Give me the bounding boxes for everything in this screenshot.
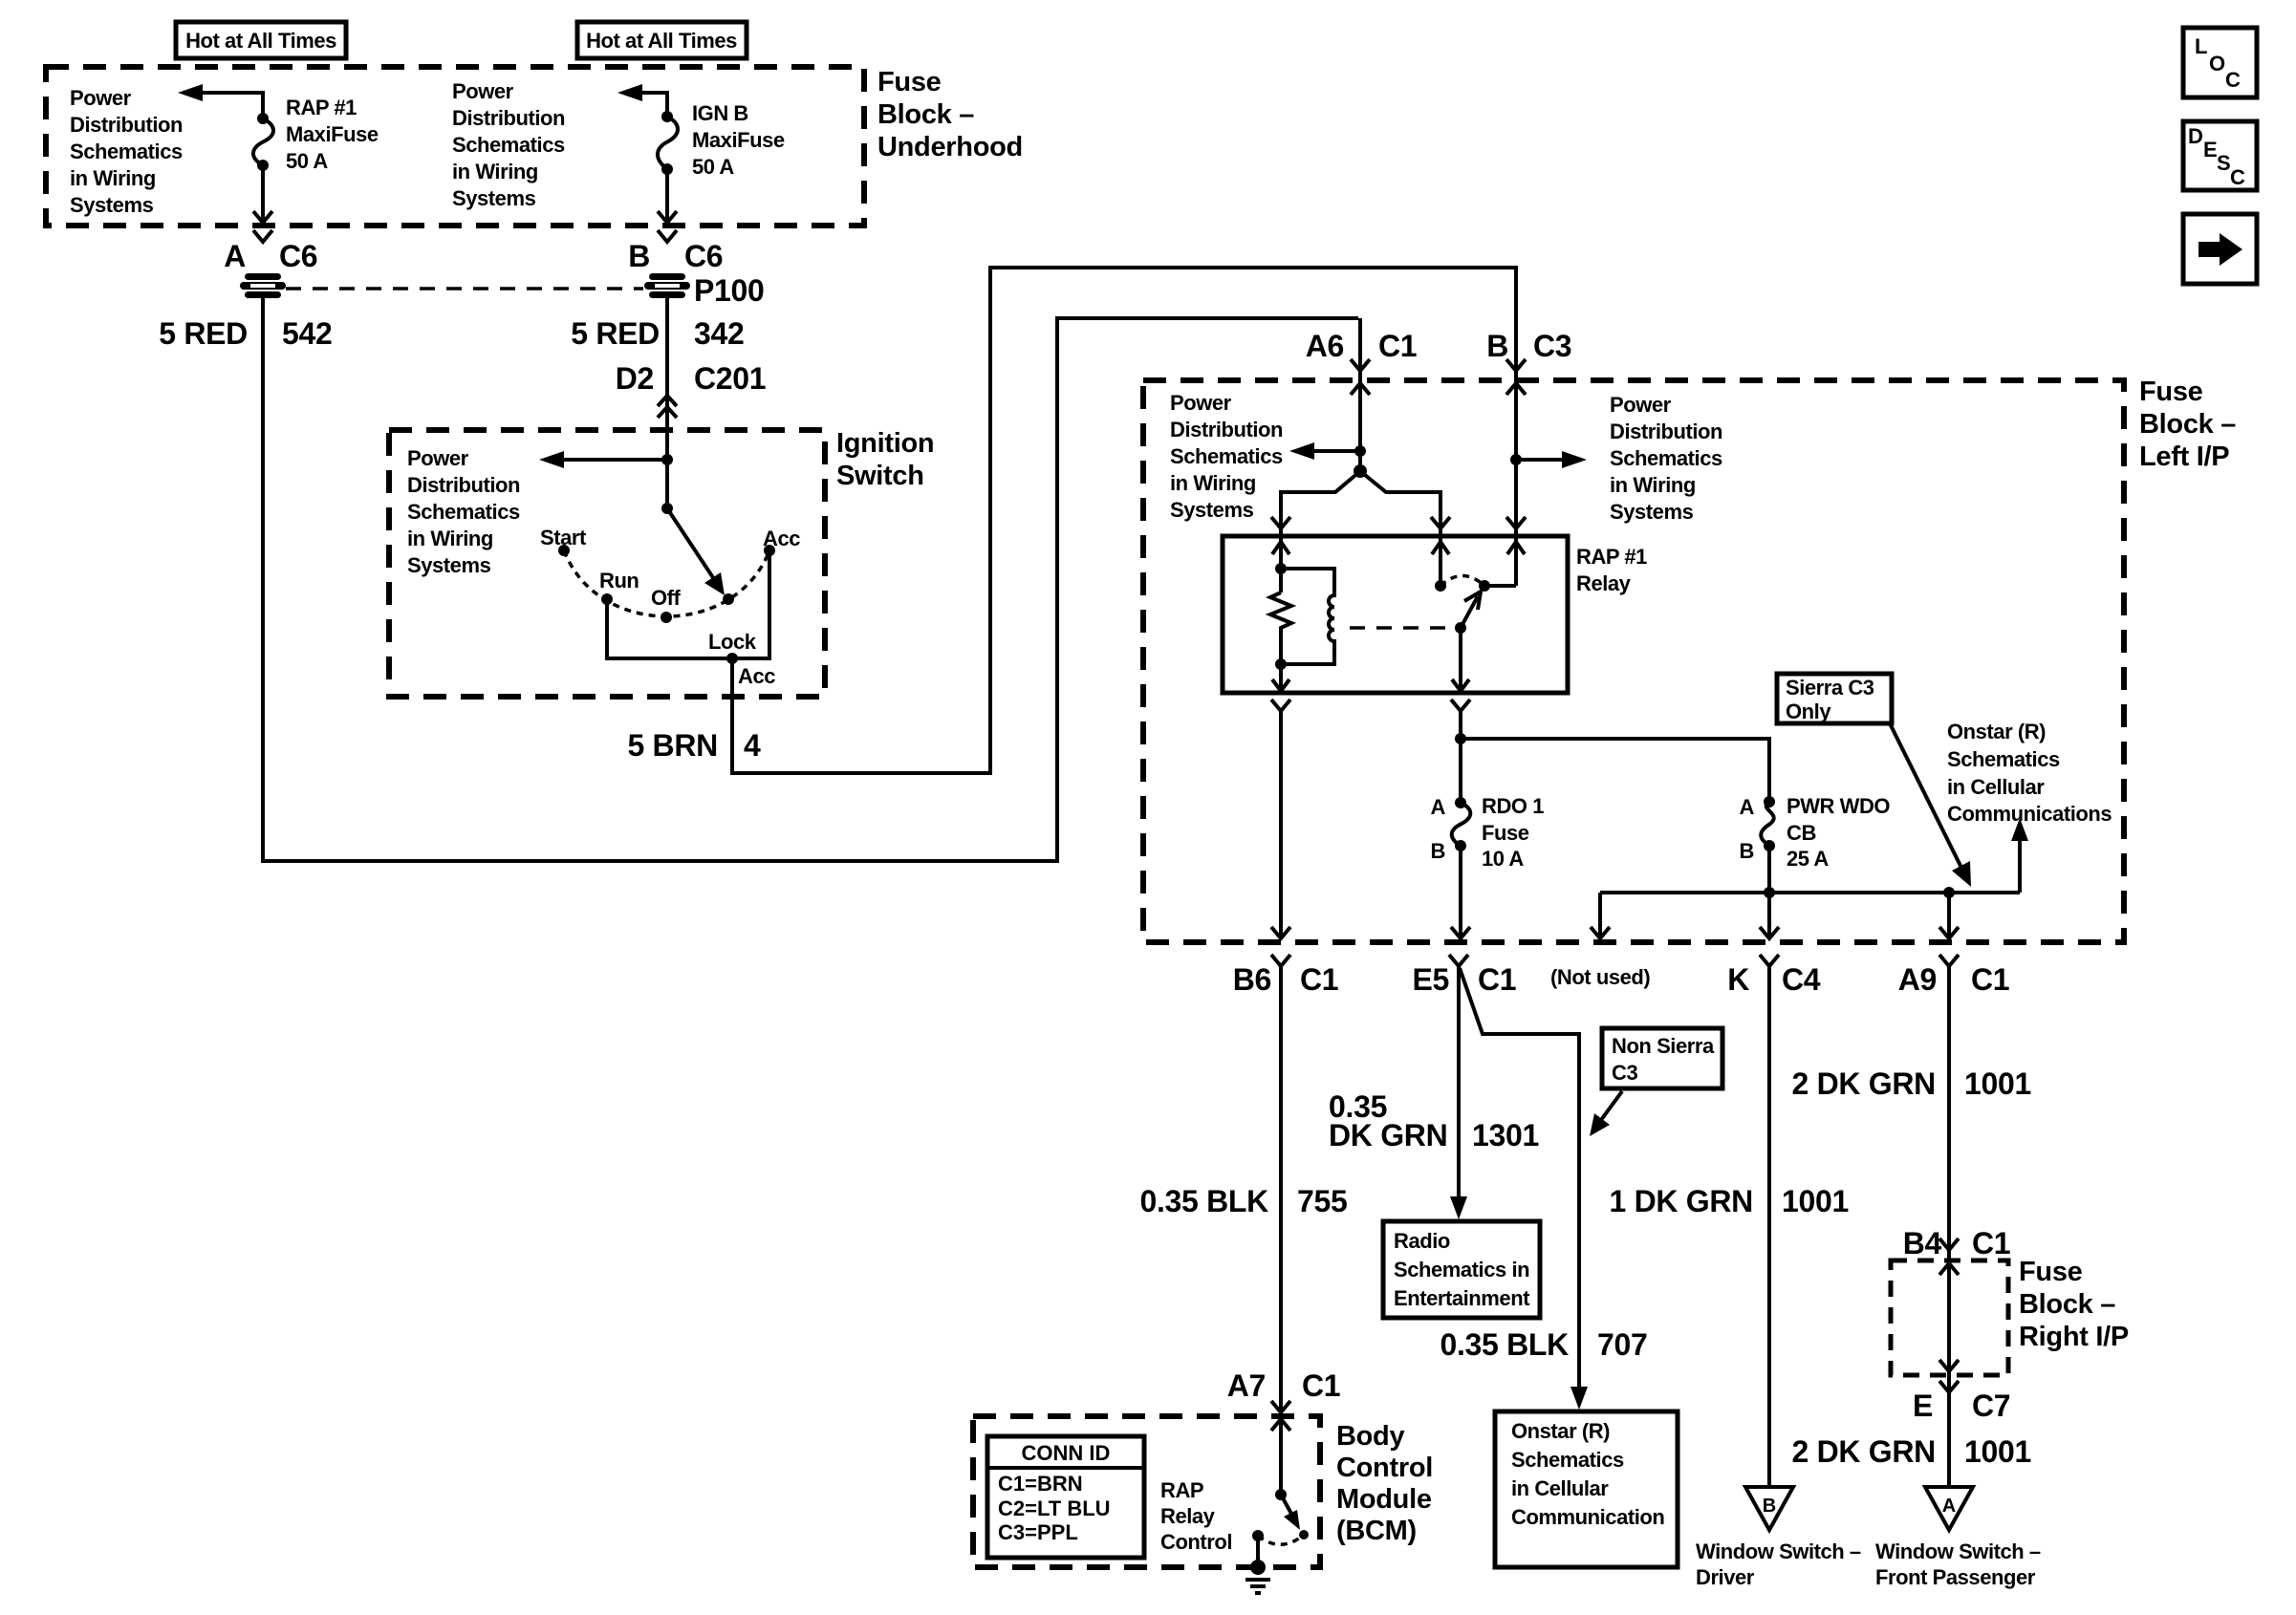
label box Onstar Schematics in Cellular Communication — [1495, 1411, 1678, 1567]
label Fuse Block - Left I/P — [2139, 377, 2236, 472]
svg-text:Acc: Acc — [738, 664, 775, 688]
node Acc (arc contact) — [723, 593, 734, 605]
note Onstar (R) Schematics in Cellular Communications — [1947, 720, 2112, 826]
svg-text:5 RED: 5 RED — [571, 316, 660, 351]
wire A6 feed inside fuse block — [1358, 318, 1362, 471]
relay coil — [1281, 569, 1334, 664]
svg-text:Systems: Systems — [452, 186, 536, 210]
svg-text:Schematics: Schematics — [1170, 444, 1283, 468]
svg-text:5 BRN: 5 BRN — [627, 728, 718, 763]
svg-text:in Wiring: in Wiring — [70, 166, 156, 190]
svg-text:C2=LT BLU: C2=LT BLU — [998, 1497, 1111, 1520]
svg-text:Block –: Block – — [2019, 1289, 2115, 1320]
svg-text:DK GRN: DK GRN — [1329, 1118, 1447, 1152]
svg-text:Control: Control — [1160, 1530, 1232, 1554]
node branch to PWR WDO CB — [1455, 733, 1769, 802]
svg-text:Schematics: Schematics — [70, 140, 183, 163]
svg-text:Block –: Block – — [2139, 409, 2236, 440]
svg-text:CB: CB — [1787, 821, 1816, 845]
svg-text:RAP: RAP — [1160, 1478, 1203, 1502]
button DESC — [2183, 121, 2257, 190]
svg-text:in Cellular: in Cellular — [1511, 1476, 1609, 1500]
svg-text:542: 542 — [282, 316, 333, 351]
svg-text:C6: C6 — [684, 239, 723, 273]
svg-text:1001: 1001 — [1964, 1434, 2031, 1469]
off-page connector A Window Switch Front Passenger — [1875, 1487, 2041, 1589]
wire 1001 from A9 to right I/P fuse block — [1947, 966, 1951, 1487]
svg-text:Power: Power — [1610, 393, 1672, 417]
svg-text:Window Switch –: Window Switch – — [1696, 1540, 1861, 1563]
wire label 2 DK GRN 1001 (lower) — [1791, 1434, 2031, 1469]
svg-text:PWR WDO: PWR WDO — [1787, 794, 1890, 818]
svg-text:Start: Start — [540, 526, 587, 549]
wire arrow to power distribution (left fuse) — [178, 84, 263, 118]
svg-text:Module: Module — [1336, 1484, 1432, 1515]
node Off — [651, 586, 682, 623]
svg-text:B6: B6 — [1233, 962, 1271, 997]
pin E of connector C7 — [1913, 1381, 2010, 1423]
wire label 0.35 BLK 755 — [1139, 1184, 1347, 1218]
label box Radio Schematics in Entertainment — [1383, 1221, 1540, 1318]
label IGN B MaxiFuse 50 A — [692, 101, 785, 179]
node Run — [599, 569, 639, 605]
svg-text:C1=BRN: C1=BRN — [998, 1472, 1083, 1496]
note Power Distribution Schematics (B C3) — [1610, 393, 1722, 524]
svg-text:in Wiring: in Wiring — [1170, 471, 1256, 495]
svg-text:L: L — [2195, 34, 2207, 58]
svg-text:Schematics in: Schematics in — [1394, 1258, 1529, 1281]
svg-text:50 A: 50 A — [692, 155, 734, 179]
svg-text:Hot at All Times: Hot at All Times — [185, 29, 336, 53]
svg-text:in Wiring: in Wiring — [1610, 473, 1696, 497]
label box Hot at All Times (left) — [176, 22, 346, 58]
node A6 junction with arrow to power distribution — [1289, 442, 1366, 460]
svg-text:Switch: Switch — [836, 461, 924, 491]
svg-text:P100: P100 — [694, 273, 765, 308]
node Start — [540, 526, 587, 556]
svg-text:Relay: Relay — [1576, 571, 1632, 595]
svg-text:A: A — [1431, 795, 1446, 819]
label Body Control Module (BCM) — [1336, 1421, 1433, 1546]
pin A6 of connector C1 — [1306, 329, 1418, 395]
svg-text:Acc: Acc — [763, 527, 800, 550]
dashed contact travel arc — [1440, 576, 1484, 587]
component box Body Control Module (BCM) — [973, 1416, 1320, 1567]
table CONN ID — [987, 1436, 1144, 1558]
svg-text:A: A — [224, 239, 246, 273]
label box Hot at All Times (right) — [577, 22, 747, 58]
component box Fuse Block - Underhood — [46, 67, 864, 226]
svg-text:5 RED: 5 RED — [159, 316, 248, 351]
svg-text:C4: C4 — [1782, 962, 1821, 997]
svg-text:Driver: Driver — [1696, 1565, 1755, 1589]
svg-text:Distribution: Distribution — [1610, 420, 1722, 443]
svg-text:Block –: Block – — [877, 99, 974, 130]
note Power Distribution Schematics (A6) — [1170, 391, 1283, 522]
pin B of connector C6 — [628, 230, 723, 273]
pin B6 of connector C1 — [1233, 955, 1339, 997]
fuse RDO 1 10 A — [1431, 795, 1471, 938]
pointer arrow from Sierra C3 Only — [1890, 723, 1971, 887]
exit arrows at fuse block bottom — [1271, 927, 1959, 938]
svg-text:Left I/P: Left I/P — [2139, 441, 2229, 472]
relay coil suppression resistor — [1270, 563, 1291, 670]
svg-text:E: E — [2203, 138, 2218, 161]
svg-text:C1: C1 — [1300, 962, 1338, 997]
svg-text:E: E — [1913, 1389, 1933, 1423]
svg-text:755: 755 — [1297, 1184, 1348, 1218]
svg-text:A6: A6 — [1306, 329, 1344, 363]
svg-text:Schematics: Schematics — [1947, 747, 2060, 771]
pin B of connector C3 — [1486, 329, 1571, 395]
connector P100 inline symbol (B side) — [643, 271, 765, 308]
svg-text:2 DK GRN: 2 DK GRN — [1791, 1434, 1936, 1469]
wire 342 from P100 to ignition switch — [665, 295, 669, 508]
wire 4 (Acc output) from ignition switch to fuse block left I/P (B C3) — [732, 268, 1516, 773]
svg-text:A: A — [1740, 795, 1755, 819]
wire label 5 RED 542 — [159, 316, 332, 351]
node relay contact to B C3 — [1479, 580, 1516, 592]
svg-text:A9: A9 — [1898, 962, 1937, 997]
label box Sierra C3 Only — [1777, 674, 1892, 723]
svg-text:C1: C1 — [1972, 1226, 2010, 1260]
svg-text:Fuse: Fuse — [2019, 1257, 2083, 1287]
svg-text:Systems: Systems — [1610, 500, 1694, 524]
svg-text:O: O — [2209, 52, 2225, 75]
svg-text:B: B — [1763, 1496, 1776, 1517]
node wire split to relay terminals — [1271, 464, 1450, 592]
component box Fuse Block - Left I/P — [1143, 380, 2124, 942]
wire arrow up to Onstar schematics — [2011, 818, 2028, 893]
label RAP Relay Control — [1160, 1478, 1232, 1554]
wire label 5 RED 342 — [571, 316, 744, 351]
node B C3 junction with arrow to power distribution — [1510, 451, 1587, 468]
svg-text:C7: C7 — [1972, 1389, 2010, 1423]
svg-text:Power: Power — [407, 446, 469, 470]
off-page connector B Window Switch Driver — [1696, 1487, 1861, 1589]
svg-text:Onstar (R): Onstar (R) — [1511, 1419, 1610, 1443]
svg-text:10 A: 10 A — [1482, 847, 1524, 871]
svg-text:Hot at All Times: Hot at All Times — [586, 29, 737, 53]
relay box RAP #1 Relay — [1223, 536, 1568, 693]
svg-text:C3=PPL: C3=PPL — [998, 1520, 1078, 1544]
svg-text:in Wiring: in Wiring — [407, 527, 493, 550]
note Power Distribution Schematics (IGN B) — [452, 79, 565, 210]
wire 1301 from E5 to radio — [1450, 966, 1467, 1219]
svg-text:Communication: Communication — [1511, 1505, 1664, 1529]
node Acc (top right) — [763, 527, 800, 556]
relay terminal pin arrows (top) — [1272, 542, 1525, 569]
svg-text:C3: C3 — [1533, 329, 1571, 363]
label box Non Sierra C3 — [1602, 1028, 1722, 1088]
svg-text:Run: Run — [599, 569, 639, 592]
svg-text:707: 707 — [1597, 1327, 1648, 1362]
svg-text:Schematics: Schematics — [1610, 446, 1722, 470]
label Fuse Block - Underhood — [877, 67, 1023, 162]
svg-text:Front Passenger: Front Passenger — [1875, 1565, 2036, 1589]
svg-text:C1: C1 — [1378, 329, 1417, 363]
label RDO 1 Fuse 10 A — [1482, 794, 1544, 871]
wire 707 branch from E5 to Onstar — [1460, 968, 1588, 1410]
fuse IGN B MaxiFuse 50 A — [658, 111, 678, 223]
svg-text:RAP #1: RAP #1 — [286, 96, 357, 119]
svg-text:Communications: Communications — [1947, 802, 2112, 826]
svg-text:A7: A7 — [1227, 1368, 1266, 1403]
svg-text:Sierra C3: Sierra C3 — [1786, 676, 1874, 700]
pin A of connector C6 — [224, 230, 317, 273]
svg-text:Distribution: Distribution — [407, 473, 520, 497]
svg-text:B: B — [1431, 839, 1445, 863]
svg-text:IGN B: IGN B — [692, 101, 748, 125]
svg-text:Radio: Radio — [1394, 1229, 1450, 1253]
svg-text:K: K — [1727, 962, 1749, 997]
label (Not used) — [1550, 965, 1650, 989]
component box Fuse Block - Right I/P — [1891, 1260, 2008, 1375]
label Fuse Block - Right I/P — [2019, 1257, 2129, 1352]
svg-text:Systems: Systems — [407, 553, 491, 577]
svg-text:2 DK GRN: 2 DK GRN — [1791, 1066, 1936, 1101]
node ignition feed junction with arrow to power distribution — [539, 451, 673, 468]
svg-text:Distribution: Distribution — [452, 106, 565, 130]
wire relay output down to RDO fuse — [1451, 700, 1470, 803]
wire Run/Acc common bus — [607, 550, 769, 658]
note Power Distribution Schematics (RAP #1) — [70, 86, 183, 217]
svg-text:Relay: Relay — [1160, 1504, 1216, 1528]
svg-text:C1: C1 — [1478, 962, 1516, 997]
node branch to A9 and Onstar — [1943, 887, 1955, 938]
pin E5 of connector C1 — [1412, 955, 1516, 997]
circuit breaker PWR WDO CB 25 A — [1740, 795, 1775, 893]
button LOC — [2183, 28, 2257, 97]
svg-text:Schematics: Schematics — [407, 500, 520, 524]
svg-text:Systems: Systems — [1170, 498, 1254, 522]
svg-text:0.35 BLK: 0.35 BLK — [1440, 1327, 1569, 1362]
svg-text:1 DK GRN: 1 DK GRN — [1609, 1184, 1753, 1218]
node Lock junction — [708, 630, 775, 688]
svg-text:Body: Body — [1336, 1421, 1404, 1452]
wire 755 from B6 to BCM A7 — [1279, 966, 1283, 1495]
label PWR WDO CB 25 A — [1787, 794, 1890, 871]
svg-text:Fuse: Fuse — [2139, 377, 2203, 407]
svg-text:in Wiring: in Wiring — [452, 160, 538, 183]
svg-text:B: B — [628, 239, 650, 273]
svg-text:C1: C1 — [1971, 962, 2009, 997]
svg-text:C201: C201 — [694, 361, 766, 396]
pin B4 of connector C1 — [1903, 1226, 2011, 1260]
fuse RAP #1 MaxiFuse 50 A — [253, 113, 273, 223]
wire 542 from C6-A to fuse block left I/P (A6) — [263, 295, 1358, 861]
svg-text:B4: B4 — [1903, 1226, 1942, 1260]
pin A7 of connector C1 — [1227, 1368, 1341, 1431]
svg-text:Off: Off — [651, 586, 682, 610]
svg-text:Only: Only — [1786, 700, 1831, 723]
wire label 2 DK GRN 1001 (upper) — [1791, 1066, 2031, 1101]
svg-text:(Not used): (Not used) — [1550, 965, 1650, 989]
svg-text:0.35 BLK: 0.35 BLK — [1139, 1184, 1268, 1218]
wire 1001 from K to driver window switch — [1767, 966, 1771, 1487]
svg-text:1001: 1001 — [1964, 1066, 2031, 1101]
ground in BCM — [1245, 1530, 1270, 1593]
svg-text:Power: Power — [452, 79, 514, 103]
connector C6 inline symbol (A side) — [239, 271, 287, 300]
svg-text:in Cellular: in Cellular — [1947, 775, 2045, 799]
svg-text:Power: Power — [70, 86, 132, 110]
svg-text:Fuse: Fuse — [1482, 821, 1529, 845]
dashed mechanical linkage coil to arm — [1350, 626, 1451, 630]
component box Ignition Switch — [389, 430, 825, 697]
svg-text:25 A: 25 A — [1787, 847, 1829, 871]
terminal chevron B C3 at relay — [1506, 517, 1526, 528]
svg-text:Power: Power — [1170, 391, 1232, 415]
button next arrow — [2183, 214, 2257, 284]
wire label 0.35 BLK 707 — [1440, 1327, 1647, 1362]
svg-text:Onstar (R): Onstar (R) — [1947, 720, 2046, 743]
svg-text:C1: C1 — [1302, 1368, 1340, 1403]
svg-text:Window Switch –: Window Switch – — [1875, 1540, 2041, 1563]
svg-text:1001: 1001 — [1782, 1184, 1849, 1218]
svg-text:MaxiFuse: MaxiFuse — [286, 122, 379, 146]
label RAP #1 Relay — [1576, 545, 1647, 595]
svg-text:4: 4 — [744, 728, 761, 763]
pin K of connector C4 — [1727, 955, 1821, 997]
svg-text:1301: 1301 — [1472, 1118, 1539, 1152]
wire arrow to power distribution (right fuse) — [617, 84, 667, 117]
wire relay switched output leg — [1452, 628, 1469, 691]
svg-text:D2: D2 — [616, 361, 654, 396]
svg-text:C: C — [2230, 165, 2245, 189]
dashed detent arc ignition positions — [564, 550, 769, 616]
svg-text:RDO 1: RDO 1 — [1482, 794, 1544, 818]
svg-text:C3: C3 — [1612, 1061, 1637, 1085]
pin A9 of connector C1 — [1898, 955, 2010, 997]
wire label 5 BRN 4 — [627, 728, 761, 763]
svg-text:B: B — [1486, 329, 1508, 363]
svg-text:C6: C6 — [279, 239, 317, 273]
svg-text:A: A — [1942, 1496, 1956, 1517]
svg-text:E5: E5 — [1412, 962, 1449, 997]
svg-text:Right I/P: Right I/P — [2019, 1322, 2129, 1352]
label RAP #1 MaxiFuse 50 A — [286, 96, 379, 173]
svg-text:Lock: Lock — [708, 630, 757, 654]
wire distribution bus from CB output — [1600, 887, 2020, 938]
svg-text:S: S — [2217, 151, 2231, 175]
switch RAP relay control driver in BCM — [1275, 1489, 1309, 1540]
relay movable arm — [1455, 592, 1481, 634]
svg-text:Entertainment: Entertainment — [1394, 1286, 1530, 1310]
wire coil ground to B6 exit — [1271, 700, 1290, 938]
switch arm ignition (pivot to Acc position) — [661, 503, 725, 595]
svg-text:D: D — [2188, 124, 2203, 148]
svg-text:Systems: Systems — [70, 193, 154, 217]
svg-text:Control: Control — [1336, 1453, 1433, 1483]
svg-text:C: C — [2225, 68, 2241, 92]
svg-text:Underhood: Underhood — [877, 132, 1023, 162]
svg-text:(BCM): (BCM) — [1336, 1516, 1417, 1546]
svg-text:Fuse: Fuse — [877, 67, 942, 97]
note Power Distribution Schematics (ignition) — [407, 446, 520, 577]
svg-text:Non Sierra: Non Sierra — [1612, 1034, 1715, 1058]
svg-text:Schematics: Schematics — [1511, 1448, 1624, 1472]
svg-text:B: B — [1740, 839, 1754, 863]
svg-text:Distribution: Distribution — [1170, 418, 1283, 441]
svg-text:50 A: 50 A — [286, 149, 328, 173]
wire relay coil ground leg — [1272, 664, 1289, 691]
svg-text:Ignition: Ignition — [836, 428, 934, 459]
node relay fixed contact (from A6 feed) — [1435, 580, 1446, 592]
dashed connector mating line C6/P100 — [286, 287, 644, 291]
label Ignition Switch — [836, 428, 934, 491]
svg-text:Distribution: Distribution — [70, 113, 183, 137]
wire label 1 DK GRN 1001 — [1609, 1184, 1849, 1218]
pointer arrow from Non Sierra C3 — [1590, 1091, 1622, 1136]
connector C201 pin D2 — [616, 361, 767, 418]
svg-text:CONN ID: CONN ID — [1022, 1441, 1111, 1465]
svg-text:Schematics: Schematics — [452, 133, 565, 157]
dashed switch travel arc (BCM) — [1258, 1535, 1304, 1544]
wire label 0.35 DK GRN 1301 — [1329, 1089, 1539, 1152]
svg-text:342: 342 — [694, 316, 745, 351]
svg-text:RAP #1: RAP #1 — [1576, 545, 1647, 569]
svg-text:MaxiFuse: MaxiFuse — [692, 128, 785, 152]
